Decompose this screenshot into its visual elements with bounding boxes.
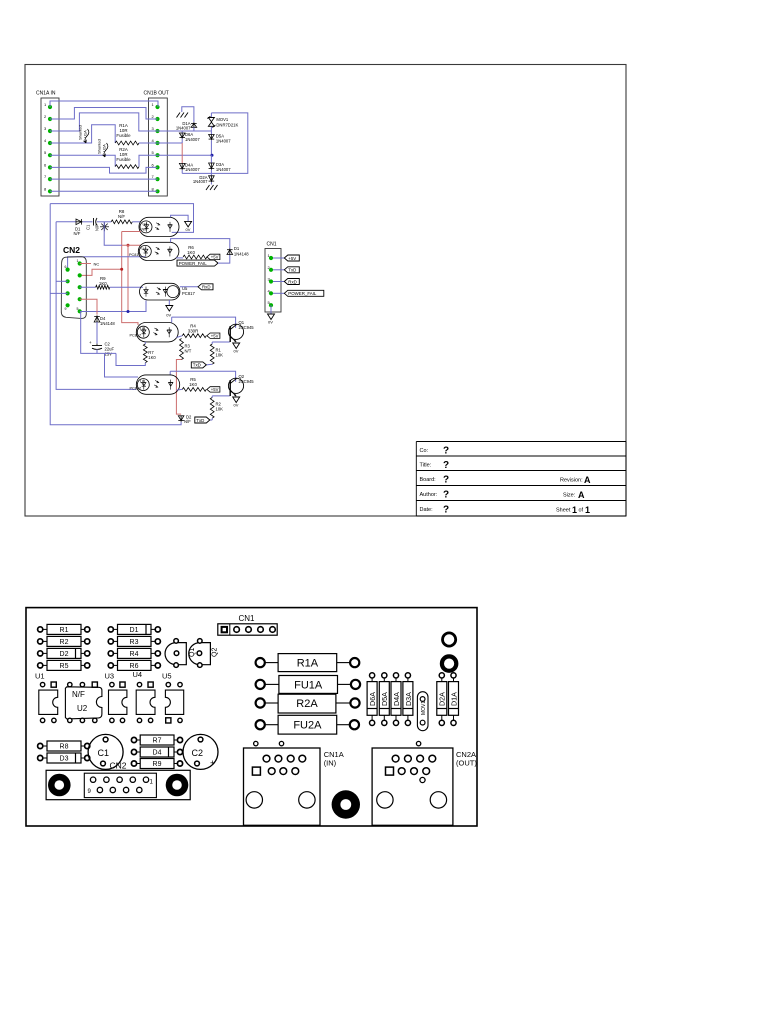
resistor R2 10K bbox=[210, 398, 214, 419]
svg-text:C1: C1 bbox=[86, 224, 91, 230]
schematic sheet frame bbox=[25, 65, 626, 517]
PCB R2A bbox=[256, 698, 265, 707]
svg-text:Fusible: Fusible bbox=[116, 133, 131, 138]
wire CN2 pin8 to bus A bbox=[50, 292, 67, 294]
svg-text:Sheet: Sheet bbox=[556, 508, 571, 514]
svg-text:10K: 10K bbox=[216, 407, 224, 412]
title block bbox=[416, 441, 626, 443]
svg-text:D4: D4 bbox=[153, 750, 162, 757]
svg-text:MOV1: MOV1 bbox=[421, 701, 427, 715]
svg-text:U2: U2 bbox=[143, 223, 148, 227]
wire red row1 cathode bbox=[122, 231, 141, 233]
tag TxD row5 bbox=[211, 418, 213, 420]
svg-text:D1: D1 bbox=[130, 627, 139, 634]
svg-text:1N4007: 1N4007 bbox=[216, 138, 231, 143]
wire row4 collector to Q1 bbox=[171, 317, 173, 322]
svg-text:10K: 10K bbox=[216, 353, 224, 358]
transistor Q1 2SC945 bbox=[228, 324, 243, 339]
PCB FU1A bbox=[256, 680, 265, 689]
wire top rail bbox=[50, 204, 193, 233]
wire TxD tag bbox=[273, 269, 284, 271]
svg-text:?: ? bbox=[443, 490, 449, 501]
svg-text:D3A: D3A bbox=[404, 692, 413, 706]
svg-text:D1: D1 bbox=[234, 246, 240, 251]
svg-text:CN2: CN2 bbox=[110, 761, 127, 771]
wire pin1 NC bbox=[80, 263, 91, 265]
wire row2 collector line bbox=[171, 239, 230, 249]
svg-text:R6: R6 bbox=[130, 663, 139, 670]
svg-text:D3: D3 bbox=[60, 756, 69, 763]
svg-text:1N4007: 1N4007 bbox=[193, 179, 208, 184]
svg-text:N/F: N/F bbox=[74, 231, 81, 236]
wire CN1A pin4 via R1A bbox=[50, 125, 115, 143]
svg-text:R3: R3 bbox=[130, 639, 139, 646]
svg-text:?: ? bbox=[443, 475, 449, 486]
svg-text:R1: R1 bbox=[60, 627, 69, 634]
svg-text:FU1A: FU1A bbox=[294, 679, 323, 691]
svg-text:Size:: Size: bbox=[563, 493, 576, 499]
PCB FU2A bbox=[256, 720, 265, 729]
svg-text:R8: R8 bbox=[60, 744, 69, 751]
diode D1 1N4148 bbox=[229, 249, 231, 255]
svg-text:TxD: TxD bbox=[196, 418, 204, 423]
svg-text:6: 6 bbox=[65, 265, 67, 269]
svg-text:9: 9 bbox=[65, 307, 67, 311]
resistor R8 N/F bbox=[111, 220, 132, 224]
svg-text:1N4007: 1N4007 bbox=[185, 167, 200, 172]
svg-text:6: 6 bbox=[44, 162, 47, 167]
wire red R3 to D2 bbox=[176, 360, 181, 415]
wire row2 cathode to CN2 pin6 bbox=[68, 257, 146, 270]
svg-text:U1: U1 bbox=[140, 379, 146, 384]
svg-text:PC817: PC817 bbox=[182, 291, 195, 296]
svg-text:C1: C1 bbox=[98, 748, 110, 758]
wire ground branch under C2 bbox=[81, 312, 116, 354]
svg-text:1N4148: 1N4148 bbox=[100, 321, 115, 326]
svg-text:7: 7 bbox=[152, 174, 155, 179]
svg-text:N/F: N/F bbox=[95, 224, 100, 231]
wire to row5 anode bbox=[105, 353, 139, 377]
wire blue C1 branch bbox=[104, 222, 122, 246]
svg-text:CN1A IN: CN1A IN bbox=[36, 91, 56, 97]
svg-text:MOV1: MOV1 bbox=[216, 117, 229, 122]
svg-text:U1: U1 bbox=[35, 672, 45, 681]
tag TxD row4 bbox=[206, 363, 212, 366]
wire input row1 + left bus B bbox=[56, 222, 136, 390]
svg-text:D2A: D2A bbox=[438, 692, 447, 706]
PCB mounting hole rings bbox=[443, 633, 456, 646]
wire CN1A pin8 to CN1B pin8 bbox=[50, 190, 158, 192]
svg-text:1N4007: 1N4007 bbox=[216, 167, 231, 172]
PCB D4 bbox=[131, 749, 136, 754]
svg-text:U4: U4 bbox=[142, 247, 147, 251]
PCB D3 bbox=[38, 755, 43, 760]
svg-text:Revision:: Revision: bbox=[560, 478, 583, 484]
resistor R5 1K0 bbox=[177, 388, 183, 391]
svg-text:8: 8 bbox=[152, 186, 155, 191]
svg-text:1: 1 bbox=[150, 780, 154, 786]
+5V flag row4 bbox=[207, 333, 220, 338]
svg-text:+: + bbox=[89, 340, 92, 345]
svg-text:R4: R4 bbox=[130, 651, 139, 658]
PCB CN2 connector bbox=[46, 770, 190, 799]
svg-text:?: ? bbox=[443, 446, 449, 457]
opto-coupler U2 N/F (row 1) bbox=[139, 217, 179, 236]
wire row1 right to 0V bbox=[171, 215, 189, 221]
wire POWER_FAIL tag bbox=[273, 292, 284, 294]
svg-text:of: of bbox=[579, 508, 584, 514]
svg-text:RxD: RxD bbox=[202, 285, 211, 290]
PCB small pads above jacks bbox=[254, 741, 258, 745]
svg-text:4: 4 bbox=[44, 138, 47, 143]
svg-text:DNR7D21K: DNR7D21K bbox=[216, 122, 238, 127]
svg-text:1: 1 bbox=[77, 259, 79, 263]
PCB D1A bbox=[451, 673, 456, 678]
tag RxD bbox=[180, 286, 198, 288]
wire CN1A pin5 via R2A to CN1B pin5 and diode node bbox=[50, 155, 115, 166]
resistor R1 10K bbox=[210, 344, 214, 364]
PCB U2 N/F bbox=[68, 682, 72, 686]
svg-text:TxD: TxD bbox=[288, 268, 296, 273]
resistor R1A bbox=[115, 141, 139, 145]
svg-text:R9: R9 bbox=[153, 761, 162, 768]
wire R1 top to Q1 base bbox=[211, 342, 213, 344]
svg-text:N/F: N/F bbox=[142, 228, 149, 232]
svg-text:1: 1 bbox=[44, 102, 47, 107]
svg-text:1K0: 1K0 bbox=[187, 250, 195, 255]
diode D2 N/F bbox=[180, 416, 182, 422]
PCB MOV1 bbox=[417, 692, 428, 731]
svg-text:7: 7 bbox=[44, 174, 47, 179]
wire R2 top to Q2 base bbox=[212, 395, 230, 397]
svg-text:Title:: Title: bbox=[420, 463, 432, 469]
opto-coupler U5 PC817 (row 3) bbox=[140, 283, 180, 300]
varistor MOV1 bbox=[210, 113, 212, 118]
svg-text:D1A: D1A bbox=[449, 692, 458, 706]
svg-text:R1A: R1A bbox=[297, 658, 319, 670]
wire red bus down to row4 anode bbox=[122, 232, 138, 326]
PCB Q1 bbox=[165, 643, 186, 665]
svg-text:Author:: Author: bbox=[420, 492, 438, 498]
svg-text:5: 5 bbox=[152, 150, 155, 155]
wire ground loop to D1A bbox=[182, 107, 194, 122]
svg-text:9: 9 bbox=[88, 789, 92, 795]
svg-text:+5V: +5V bbox=[211, 333, 219, 338]
PCB center mounting hole bbox=[332, 790, 360, 818]
svg-text:4: 4 bbox=[152, 138, 155, 143]
PCB R2 bbox=[38, 639, 43, 644]
svg-text:U3: U3 bbox=[140, 327, 146, 332]
wire CN1A pin3 to CN1B pin3 and diode column bbox=[50, 113, 211, 131]
svg-text:1: 1 bbox=[572, 505, 577, 515]
wire red to CN2 pin2 bbox=[80, 269, 122, 275]
PCB CN2A jack bbox=[372, 748, 453, 825]
ground 0V row1 bbox=[185, 221, 192, 227]
svg-text:Co:: Co: bbox=[420, 448, 429, 454]
ground G1 bbox=[177, 113, 181, 118]
svg-text:A: A bbox=[584, 475, 591, 485]
ground 0V row3 bbox=[168, 300, 170, 306]
svg-text:PC817: PC817 bbox=[130, 387, 142, 391]
PCB D1 bbox=[108, 627, 113, 632]
svg-text:25V: 25V bbox=[105, 352, 113, 357]
transistor Q2 2SC945 bbox=[228, 378, 243, 393]
svg-text:+5V: +5V bbox=[288, 256, 296, 261]
+5V flag row5 bbox=[207, 387, 220, 392]
PCB R3 bbox=[108, 639, 113, 644]
svg-text:U2: U2 bbox=[77, 704, 88, 713]
diode D1A bbox=[193, 122, 195, 127]
svg-text:N/T: N/T bbox=[185, 349, 192, 354]
svg-text:R5: R5 bbox=[60, 663, 69, 670]
svg-text:PC817: PC817 bbox=[130, 334, 142, 338]
opto-coupler U4 PC817 (row 2) bbox=[138, 242, 179, 260]
ground 0V Q1 bbox=[233, 343, 240, 349]
svg-text:CN1B OUT: CN1B OUT bbox=[144, 91, 169, 97]
svg-text:8: 8 bbox=[44, 186, 47, 191]
wire CN1A pin7 to CN1B pin7 bbox=[50, 178, 158, 180]
resistor R2A bbox=[115, 165, 139, 169]
PCB D2 bbox=[38, 651, 43, 656]
opto-coupler U1 PC817 (row 5) bbox=[136, 375, 179, 394]
svg-text:(OUT): (OUT) bbox=[456, 759, 477, 768]
PCB R9 bbox=[131, 761, 136, 766]
diode D3A bbox=[210, 155, 212, 163]
wire CN2 pin7 to bus B bbox=[56, 280, 68, 282]
diode D1 N/F bbox=[76, 221, 83, 223]
svg-text:RxD: RxD bbox=[288, 279, 297, 284]
resistor R4 330R bbox=[177, 336, 183, 338]
wire RxD tag bbox=[273, 281, 284, 283]
PCB D6A bbox=[370, 673, 375, 678]
not-fitted cross mark bbox=[100, 226, 109, 228]
wire +5V tag bbox=[273, 257, 284, 259]
svg-text:U4: U4 bbox=[133, 670, 143, 679]
svg-text:1N4007: 1N4007 bbox=[176, 126, 191, 131]
svg-text:5: 5 bbox=[77, 307, 79, 311]
svg-text:(IN): (IN) bbox=[324, 759, 337, 768]
PCB R8 bbox=[38, 743, 43, 748]
svg-text:FU2A: FU2A bbox=[293, 720, 322, 732]
PCB R5 bbox=[38, 663, 43, 668]
svg-text:1N4148: 1N4148 bbox=[234, 251, 249, 256]
diode D2A bbox=[210, 173, 212, 175]
PCB D4A bbox=[393, 673, 398, 678]
svg-text:3: 3 bbox=[152, 126, 155, 131]
svg-text:Date:: Date: bbox=[420, 507, 434, 513]
svg-text:+5V: +5V bbox=[211, 255, 219, 260]
svg-text:R7: R7 bbox=[153, 738, 162, 745]
+5V flag row2 bbox=[207, 254, 220, 259]
svg-text:Fusible: Fusible bbox=[116, 157, 131, 162]
node junction dot bbox=[211, 154, 214, 157]
diode D4 1N4148 bbox=[96, 315, 98, 322]
wire red CN2 pin4 to D4 bbox=[80, 299, 97, 314]
wire R1A to CN1B pin4 and D6A bbox=[139, 142, 182, 144]
wire D1 to tag bbox=[218, 255, 230, 264]
svg-text:A: A bbox=[578, 490, 585, 500]
svg-text:R2A: R2A bbox=[296, 698, 318, 710]
svg-text:1K0: 1K0 bbox=[99, 281, 107, 286]
diode D6A bbox=[181, 131, 183, 133]
svg-text:2: 2 bbox=[152, 114, 155, 119]
svg-text:U5: U5 bbox=[162, 672, 172, 681]
svg-text:3: 3 bbox=[44, 126, 47, 131]
PCB R6 bbox=[108, 663, 113, 668]
svg-text:0V: 0V bbox=[186, 227, 191, 232]
svg-text:1: 1 bbox=[585, 505, 590, 515]
junction dot red bbox=[127, 244, 130, 247]
svg-text:U3: U3 bbox=[105, 672, 115, 681]
svg-text:1N4007: 1N4007 bbox=[185, 137, 200, 142]
resistor R9 bbox=[80, 286, 96, 288]
wire left bus A bbox=[50, 204, 181, 425]
wire CN1A pin6 to CN1B pin6 bbox=[50, 167, 158, 173]
svg-text:1K0: 1K0 bbox=[148, 355, 156, 360]
svg-text:1K0: 1K0 bbox=[189, 382, 197, 387]
svg-text:2SC945: 2SC945 bbox=[239, 325, 255, 330]
wire row5 top bbox=[170, 371, 235, 382]
diode D5A bbox=[210, 135, 212, 141]
svg-text:POWER_FAIL: POWER_FAIL bbox=[288, 291, 317, 296]
svg-text:N/F: N/F bbox=[72, 690, 85, 699]
svg-text:1: 1 bbox=[152, 102, 155, 107]
svg-text:N/F: N/F bbox=[118, 214, 125, 219]
svg-text:?: ? bbox=[443, 505, 449, 516]
svg-text:NC: NC bbox=[94, 262, 100, 267]
wire CN1A pin2 to CN1B pin2 bbox=[50, 108, 158, 120]
wire red tie to ground node bbox=[127, 245, 129, 311]
svg-text:N/F: N/F bbox=[184, 419, 191, 424]
svg-text:POWER_FAIL: POWER_FAIL bbox=[179, 261, 208, 266]
wire R7 bottom to ground line bbox=[116, 353, 145, 365]
PCB R7 bbox=[131, 737, 136, 742]
PCB board outline bbox=[26, 608, 477, 826]
svg-text:CN2: CN2 bbox=[63, 245, 80, 255]
resistor R7 1K0 bbox=[144, 342, 146, 344]
svg-text:CN1: CN1 bbox=[239, 614, 256, 623]
svg-text:6: 6 bbox=[152, 162, 155, 167]
wire pin5 to 0V bbox=[270, 305, 272, 314]
resistor R6 bbox=[176, 257, 183, 259]
svg-text:TxD: TxD bbox=[193, 363, 201, 368]
svg-text:D4A: D4A bbox=[392, 692, 401, 706]
PCB D5A bbox=[382, 673, 387, 678]
svg-text:D6A: D6A bbox=[368, 692, 377, 706]
ground G2 bbox=[206, 185, 210, 190]
svg-text:+: + bbox=[210, 758, 215, 768]
PCB C1 bbox=[88, 734, 123, 769]
wire top loop to right side bbox=[182, 113, 248, 173]
wire red D6A to D4A bbox=[181, 143, 183, 163]
svg-text:Board:: Board: bbox=[420, 477, 437, 483]
svg-text:0V: 0V bbox=[234, 349, 239, 354]
wire ground row3 bbox=[80, 301, 146, 312]
PCB R1A bbox=[256, 658, 265, 667]
svg-text:C2: C2 bbox=[192, 748, 204, 758]
PCB D3A bbox=[405, 673, 410, 678]
svg-text:+5V: +5V bbox=[211, 387, 219, 392]
resistor R3 N/T bbox=[180, 339, 184, 360]
PCB Q2 bbox=[189, 643, 211, 665]
svg-text:Q2: Q2 bbox=[212, 648, 219, 657]
svg-text:5: 5 bbox=[44, 150, 47, 155]
PCB C2 bbox=[183, 734, 218, 769]
svg-text:330R: 330R bbox=[188, 329, 199, 334]
svg-text:D5A: D5A bbox=[380, 692, 389, 706]
diode D4A bbox=[181, 163, 183, 170]
svg-text:CN1: CN1 bbox=[267, 242, 277, 248]
PCB CN1A jack bbox=[244, 748, 321, 825]
wire CN1A pin1 to CN1B pin1 bbox=[50, 101, 158, 107]
svg-text:PC817: PC817 bbox=[129, 253, 141, 257]
wire red to row2 anode bbox=[122, 244, 141, 246]
tag POWER_FAIL mid bbox=[177, 260, 218, 266]
svg-text:0V: 0V bbox=[166, 313, 171, 318]
svg-text:?: ? bbox=[443, 460, 449, 471]
PCB R4 bbox=[108, 651, 113, 656]
opto-coupler U3 PC817 (row 4) bbox=[136, 323, 178, 342]
svg-text:D2: D2 bbox=[60, 651, 69, 658]
ground 0V Q2 bbox=[233, 397, 240, 403]
svg-text:0V: 0V bbox=[268, 320, 273, 325]
svg-text:R2: R2 bbox=[60, 639, 69, 646]
PCB D2A bbox=[439, 673, 444, 678]
svg-text:2SC945: 2SC945 bbox=[239, 379, 255, 384]
wire D5A to node bbox=[210, 140, 212, 155]
svg-text:2: 2 bbox=[44, 114, 47, 119]
svg-text:0V: 0V bbox=[234, 403, 239, 408]
PCB R1 bbox=[38, 627, 43, 632]
